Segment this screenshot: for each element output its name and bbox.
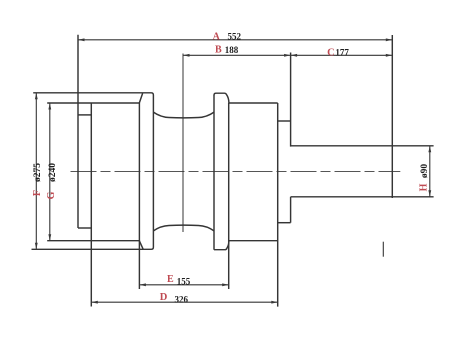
wire flange OD240 bottom bbox=[47, 240, 139, 242]
wire dimension line A bbox=[78, 39, 392, 41]
node shaft right face (A C extension) bbox=[391, 35, 393, 198]
wire center flange bottom bbox=[214, 241, 229, 250]
svg-text:D: D bbox=[160, 292, 168, 303]
wire stray tick mark bbox=[382, 242, 384, 257]
wire lip step top bbox=[78, 114, 91, 116]
svg-text:G: G bbox=[46, 191, 57, 199]
svg-text:552: 552 bbox=[228, 32, 242, 42]
node arrow G bottom bbox=[48, 234, 51, 241]
node left face vertical (A extension + left face) bbox=[77, 35, 79, 228]
wire shaft top (with H extension) bbox=[291, 145, 434, 147]
wire chamfer bottom right of flange bbox=[139, 241, 143, 250]
node arrow A left bbox=[78, 38, 85, 41]
node arrow G top bbox=[48, 103, 51, 110]
svg-text:C: C bbox=[327, 47, 335, 58]
node lip inner vertical (D extension) bbox=[90, 103, 92, 307]
node arrow D right bbox=[271, 301, 278, 304]
svg-text:A: A bbox=[213, 31, 221, 42]
svg-text:326: 326 bbox=[175, 294, 189, 304]
wire centerline axis bbox=[71, 171, 401, 173]
wire step top horizontal bbox=[278, 120, 291, 122]
svg-text:ø90: ø90 bbox=[420, 164, 430, 179]
wire tread concave bottom bbox=[153, 225, 214, 231]
wire dimension line F bbox=[35, 93, 37, 250]
svg-text:E: E bbox=[167, 274, 174, 285]
wire shaft bottom (with H extension) bbox=[291, 196, 434, 198]
node arrow F top bbox=[35, 93, 38, 100]
node B extension feature line bbox=[182, 54, 184, 233]
node arrow E right bbox=[222, 283, 229, 286]
node step right vertical (B C extension) bbox=[290, 53, 292, 147]
wire drum tread bottom right bbox=[229, 240, 278, 242]
svg-text:ø240: ø240 bbox=[48, 163, 58, 182]
wire flange OD275 top bbox=[32, 93, 154, 250]
node center flange right vertical (E extension) bbox=[228, 103, 230, 289]
wire tread concave top bbox=[153, 112, 214, 118]
wire drum tread top right bbox=[229, 102, 278, 104]
node flange inner right vertical (E extension) bbox=[138, 103, 140, 289]
svg-text:B: B bbox=[215, 45, 222, 56]
node arrow A right bbox=[386, 38, 393, 41]
svg-text:H: H bbox=[419, 183, 430, 191]
wire dimension line E bbox=[139, 284, 228, 286]
wire center flange left edge bbox=[214, 93, 229, 103]
node arrow B left bbox=[183, 54, 190, 57]
wire step bottom horizontal bbox=[278, 222, 291, 224]
node arrow C left bbox=[291, 54, 298, 57]
wire dimension line B and C bbox=[183, 54, 392, 56]
node arrow F bottom bbox=[35, 243, 38, 250]
node arrow E left bbox=[139, 283, 146, 286]
svg-text:177: 177 bbox=[335, 48, 349, 58]
node arrow H top bbox=[428, 146, 431, 153]
svg-text:155: 155 bbox=[177, 276, 191, 286]
svg-text:ø275: ø275 bbox=[33, 163, 43, 182]
wire flange OD240 top bbox=[47, 102, 139, 104]
node arrow B right bbox=[284, 54, 291, 57]
svg-text:F: F bbox=[32, 190, 43, 196]
wire dimension line H bbox=[429, 146, 431, 197]
svg-text:188: 188 bbox=[225, 45, 239, 55]
wire dimension line D bbox=[91, 301, 277, 303]
node arrow C right bbox=[386, 54, 393, 57]
wire chamfer top right of flange bbox=[139, 93, 142, 103]
node arrow D left bbox=[91, 301, 98, 304]
node arrow H bottom bbox=[428, 190, 431, 197]
wire lip step bottom bbox=[78, 227, 91, 229]
wire dimension line G bbox=[49, 103, 51, 241]
node drum right face vertical (D extension) bbox=[277, 103, 279, 307]
